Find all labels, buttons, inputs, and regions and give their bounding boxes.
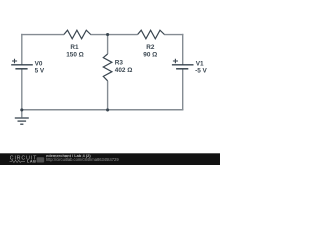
svg-text:R3: R3 <box>115 60 124 67</box>
voltage source V1 (battery) <box>172 59 194 69</box>
svg-text:V1: V1 <box>196 61 204 68</box>
wire right vertical (V1 minus terminal to bottom wire) <box>182 69 184 110</box>
wire top segment R2 to V1 <box>164 34 183 36</box>
value label 150 Ω <box>66 52 84 59</box>
footer bar <box>0 153 220 165</box>
svg-text:http://circuitlab.com/c84hma86: http://circuitlab.com/c84hma86345t4729 <box>46 157 119 162</box>
value label 5 V <box>35 68 45 75</box>
resistor R3 <box>103 54 112 81</box>
voltage source V0 (battery) <box>11 59 33 69</box>
wire top segment R1 to R2 (node A) <box>91 34 138 36</box>
label R1 <box>70 44 79 51</box>
svg-text:V0: V0 <box>35 61 43 68</box>
wire top segment V0 to R1 <box>21 34 64 36</box>
ground <box>15 110 29 124</box>
node A (junction dot top, R1/R2/R3) <box>106 33 109 36</box>
junction dot ground node <box>20 108 23 111</box>
label R3 <box>115 60 124 67</box>
wire bottom segment (ground node to V1) <box>21 109 183 111</box>
wire left vertical (top corner to V0 plus terminal) <box>21 34 23 65</box>
label V0 <box>35 61 43 68</box>
wire right vertical (top corner to V1 plus terminal) <box>182 34 184 65</box>
resistor R2 <box>138 30 165 39</box>
label V1 <box>196 61 204 68</box>
footer text line 2 <box>46 157 119 162</box>
svg-text:402 Ω: 402 Ω <box>115 67 133 74</box>
wire R3 top lead (node A to R3) <box>107 35 109 54</box>
wire R3 bottom lead (R3 to bottom wire) <box>107 81 109 110</box>
svg-text:150 Ω: 150 Ω <box>66 52 84 59</box>
wire left vertical (V0 minus terminal to bottom wire) <box>21 69 23 110</box>
value label 402 Ω <box>115 67 133 74</box>
svg-text:LAB: LAB <box>27 160 36 164</box>
value label 90 Ω <box>143 52 157 59</box>
svg-text:5 V: 5 V <box>35 68 45 75</box>
resistor R1 <box>64 30 91 39</box>
value label -5 V <box>195 68 207 75</box>
CircuitLab logo <box>10 155 45 163</box>
svg-text:R2: R2 <box>146 44 155 51</box>
svg-text:R1: R1 <box>70 44 79 51</box>
footer text line 1 <box>46 153 91 158</box>
junction dot R3 bottom <box>106 108 109 111</box>
label R2 <box>146 44 155 51</box>
svg-text:-5 V: -5 V <box>195 68 207 75</box>
svg-text:90 Ω: 90 Ω <box>143 52 157 59</box>
